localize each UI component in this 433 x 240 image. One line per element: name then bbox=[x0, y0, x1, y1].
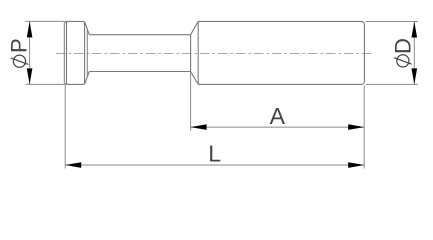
dim P extension bottom bbox=[26, 83, 67, 85]
plug head outline bbox=[67, 21, 85, 84]
dim D line bbox=[413, 21, 415, 84]
dim A arrow left bbox=[191, 124, 207, 130]
body cylinder left face line bbox=[197, 21, 199, 84]
dim P line bbox=[29, 21, 31, 84]
svg-text:A: A bbox=[270, 103, 286, 129]
label diameter symbol for P bbox=[13, 55, 25, 67]
dim L extension left bbox=[64, 85, 66, 169]
plug head cap chamfer top bbox=[64, 22, 66, 23]
dim L arrow left bbox=[65, 162, 81, 168]
dim P arrow down bbox=[27, 68, 33, 84]
shaft end face bbox=[190, 35, 192, 72]
dim L line bbox=[65, 164, 364, 166]
dim P extension top bbox=[26, 20, 67, 22]
dim D extension top bbox=[366, 20, 418, 22]
body cylinder outline bbox=[198, 21, 364, 84]
cone bottom bbox=[191, 72, 199, 85]
svg-text:P: P bbox=[6, 38, 31, 53]
shaft top edge bbox=[89, 34, 190, 36]
dim A+L extension right bbox=[363, 86, 365, 169]
dim D arrow down bbox=[412, 68, 418, 84]
centerline bbox=[56, 52, 373, 54]
dim A line bbox=[191, 126, 365, 128]
svg-text:L: L bbox=[208, 141, 221, 167]
dim P arrow up bbox=[27, 21, 33, 37]
plug head cap face line bbox=[63, 23, 65, 83]
plug head cap chamfer bottom bbox=[64, 83, 66, 84]
chamfer top bbox=[85, 22, 90, 35]
label diameter symbol for D bbox=[397, 55, 409, 67]
dim D arrow up bbox=[412, 21, 418, 37]
shaft bottom edge bbox=[89, 71, 190, 73]
svg-text:D: D bbox=[390, 38, 415, 54]
chamfer bottom bbox=[85, 72, 90, 85]
dim A extension left bbox=[190, 72, 192, 131]
head cone face line bbox=[86, 30, 88, 77]
dim L arrow right bbox=[348, 162, 364, 168]
dim D extension bottom bbox=[366, 83, 418, 85]
cone top bbox=[191, 22, 199, 35]
dim A arrow right bbox=[348, 124, 364, 130]
